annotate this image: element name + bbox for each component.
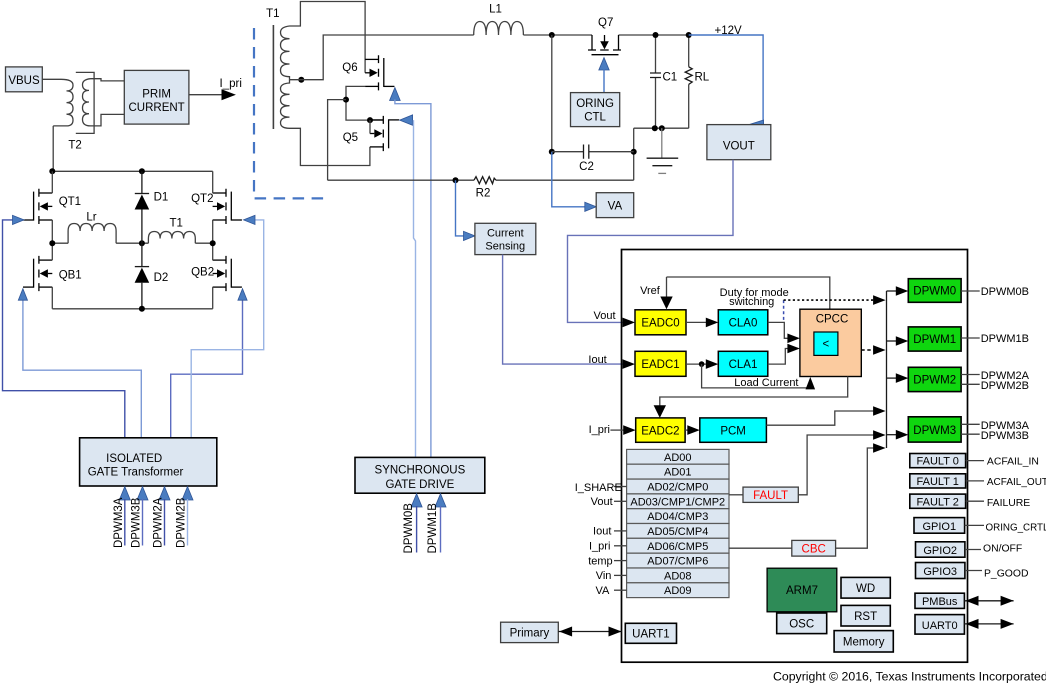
- svg-text:PCM: PCM: [720, 426, 746, 438]
- svg-text:DPWM0B: DPWM0B: [981, 286, 1029, 298]
- svg-text:UART0: UART0: [922, 620, 958, 632]
- arrowhead Q5 gate: [400, 115, 413, 125]
- bridge mid rail: [52, 242, 212, 244]
- svg-text:Q7: Q7: [598, 17, 613, 29]
- DPWM3 block: [908, 417, 961, 442]
- svg-text:QB2: QB2: [191, 267, 214, 279]
- RST block: [841, 605, 890, 626]
- svg-text:Iout: Iout: [593, 526, 611, 538]
- svg-text:ACFAIL_IN: ACFAIL_IN: [987, 457, 1039, 468]
- svg-text:DPWM3B: DPWM3B: [981, 430, 1029, 442]
- svg-text:OSC: OSC: [789, 619, 814, 631]
- wire bus to DPWM3: [887, 434, 898, 436]
- gate wire QB1 from DPWM3B: [23, 299, 141, 439]
- full-bridge top rail: [52, 170, 212, 172]
- svg-text:CPCC: CPCC: [816, 314, 849, 326]
- wire bus to DPWM2: [887, 377, 898, 379]
- node C2 right: [631, 149, 637, 155]
- node D1 cathode junction: [139, 168, 145, 174]
- transformer T1 secondary winding upper: [281, 26, 290, 80]
- CPCC block: [800, 309, 861, 376]
- wire T2 secondary bottom to PRIM CURRENT: [91, 114, 125, 126]
- svg-text:CBC: CBC: [802, 544, 826, 556]
- DPWM output labels: [981, 286, 1030, 442]
- EADC1 block: [635, 351, 686, 376]
- UART0 block: [915, 615, 1014, 635]
- ADC channel list AD00-AD09: [627, 449, 729, 597]
- svg-text:Q5: Q5: [343, 132, 358, 144]
- svg-text:AD09: AD09: [664, 585, 692, 597]
- svg-text:I_pri: I_pri: [589, 424, 610, 436]
- FAULT block: [743, 487, 798, 502]
- transistor Q6: [365, 55, 394, 90]
- svg-text:D1: D1: [154, 192, 169, 204]
- svg-text:RL: RL: [695, 72, 710, 84]
- wire QB2 drain: [212, 243, 214, 260]
- node EADC1 output junction: [699, 361, 705, 367]
- svg-text:ON/OFF: ON/OFF: [983, 543, 1022, 554]
- Current Sensing block: [475, 223, 536, 254]
- wire QB1 source: [51, 287, 53, 309]
- R2 rail: [328, 179, 634, 181]
- svg-text:FAULT 1: FAULT 1: [917, 476, 959, 488]
- svg-text:EADC1: EADC1: [641, 359, 679, 371]
- node C1 bottom: [652, 125, 658, 131]
- DPWM bus vertical: [886, 291, 888, 448]
- svg-text:I_pri: I_pri: [589, 541, 610, 553]
- dotted duty-for-mode wire to DPWM bus: [784, 299, 875, 301]
- DPWM1 block: [908, 327, 961, 351]
- svg-text:I_pri: I_pri: [220, 78, 242, 90]
- svg-text:<: <: [823, 339, 830, 351]
- svg-text:PMBus: PMBus: [922, 596, 958, 608]
- svg-text:QT1: QT1: [59, 196, 81, 208]
- resistor RL: [685, 35, 710, 128]
- svg-text:GPIO2: GPIO2: [923, 545, 957, 557]
- svg-text:VBUS: VBUS: [8, 75, 40, 87]
- transformer T2 primary winding: [53, 79, 73, 126]
- wire EADC2 to PCM: [685, 429, 688, 431]
- inductor L1: [474, 22, 524, 36]
- svg-text:Vref: Vref: [640, 285, 661, 297]
- capacitor C2: [552, 145, 634, 174]
- svg-text:GATE Transformer: GATE Transformer: [88, 467, 184, 479]
- node ground stem: [659, 125, 665, 131]
- svg-text:AD07/CMP6: AD07/CMP6: [647, 556, 708, 568]
- svg-text:Q6: Q6: [342, 62, 357, 74]
- svg-text:switching: switching: [729, 296, 774, 308]
- svg-text:temp: temp: [588, 555, 612, 567]
- arrowhead into Current Sensing: [464, 231, 475, 240]
- GPIO3 block: [916, 563, 1029, 580]
- gate wire Q6 from SYNC drive: [395, 100, 431, 458]
- CLA1 block: [718, 351, 768, 376]
- svg-text:VA: VA: [596, 585, 611, 597]
- DPWM3A input arrow: [113, 487, 130, 549]
- transistor Q7: [588, 35, 621, 55]
- svg-text:Copyright © 2016, Texas Instru: Copyright © 2016, Texas Instruments Inco…: [773, 670, 1046, 683]
- FAULT 0 block: [910, 454, 1039, 468]
- transformer T2 secondary winding: [83, 79, 91, 126]
- inductor Lr: [68, 224, 116, 244]
- wire CLA1 to CPCC: [768, 349, 789, 365]
- main output rail: [523, 34, 688, 36]
- wire Primary to UART1: [558, 631, 621, 633]
- svg-text:I_SHARE: I_SHARE: [575, 482, 622, 494]
- svg-text:Primary: Primary: [510, 628, 550, 640]
- arrowhead I_pri: [222, 89, 236, 100]
- SYNCHRONOUS GATE DRIVE block: [355, 457, 485, 493]
- svg-text:Sensing: Sensing: [485, 241, 525, 253]
- svg-text:+12V: +12V: [715, 25, 743, 37]
- svg-text:ORING: ORING: [576, 98, 614, 110]
- arrowhead into VA: [585, 202, 596, 211]
- wire C2 left vertical: [551, 35, 553, 152]
- svg-text:EADC0: EADC0: [641, 318, 679, 330]
- wire Q5 body to drain: [369, 120, 371, 133]
- svg-text:DPWM2B: DPWM2B: [981, 380, 1029, 392]
- svg-text:AD01: AD01: [664, 467, 692, 479]
- DPWM1B input arrow: [427, 494, 446, 554]
- node C1 top: [653, 32, 659, 38]
- arrowhead QB2 gate: [238, 289, 247, 301]
- wire QT1 drain: [51, 171, 53, 193]
- svg-text:AD06/CMP5: AD06/CMP5: [647, 541, 708, 553]
- wire Q6 source node to R2 rail: [328, 100, 346, 181]
- node T1 center tap: [298, 77, 304, 83]
- svg-text:QB1: QB1: [59, 270, 82, 282]
- svg-text:Memory: Memory: [843, 637, 885, 649]
- node C2 left: [549, 149, 555, 155]
- diode D1: [135, 171, 150, 243]
- node mid-center: [139, 240, 145, 246]
- WD block: [841, 577, 890, 598]
- wire EADC1 to CLA1: [686, 363, 707, 365]
- Vref feedback wire: [667, 277, 830, 309]
- wire VBUS to T2 primary: [42, 78, 61, 80]
- svg-text:GPIO1: GPIO1: [922, 521, 956, 533]
- load current wire EADC1 to CPCC: [702, 364, 811, 388]
- wire CLA0 to CPCC: [768, 322, 789, 338]
- Memory block: [834, 631, 893, 652]
- wire Vout sense to EADC0: [568, 160, 734, 323]
- Primary block: [501, 622, 559, 642]
- wire FAULT to DPWM bus: [798, 435, 874, 495]
- GPIO1 block: [914, 518, 1046, 534]
- svg-text:R2: R2: [476, 188, 491, 200]
- EADC0 block: [635, 310, 686, 335]
- wire T1 bottom to Q5 source: [290, 128, 370, 165]
- svg-text:RST: RST: [854, 611, 877, 623]
- svg-text:VOUT: VOUT: [723, 141, 755, 153]
- ADC input ticks and labels: [614, 487, 627, 591]
- wire bus to DPWM0: [887, 290, 898, 292]
- svg-text:PRIM: PRIM: [142, 89, 171, 101]
- PCM block: [700, 418, 767, 442]
- wire ORING CTL to Q7 gate: [603, 69, 605, 93]
- svg-text:UART1: UART1: [632, 629, 670, 641]
- wire QT2 source: [212, 220, 214, 243]
- wire QB2 source: [212, 287, 214, 309]
- svg-text:P_GOOD: P_GOOD: [984, 568, 1028, 579]
- dashed duty tap wire: [783, 300, 785, 322]
- VBUS block: [6, 67, 43, 92]
- svg-text:ARM7: ARM7: [786, 585, 818, 597]
- bridge bottom rail: [52, 308, 212, 310]
- arrowhead QT1 gate: [13, 215, 25, 224]
- svg-text:CTL: CTL: [584, 112, 606, 124]
- EADC2 block: [636, 418, 685, 442]
- ISOLATED GATE Transformer block: [80, 438, 217, 486]
- node top-left junction: [49, 168, 55, 174]
- svg-text:Current: Current: [487, 228, 524, 240]
- svg-text:FAULT: FAULT: [753, 490, 788, 502]
- node mid-left: [49, 240, 55, 246]
- CLA0 block: [718, 310, 768, 335]
- wire Iout sense to EADC1: [503, 255, 624, 365]
- svg-text:T2: T2: [68, 140, 81, 152]
- svg-text:FAULT 0: FAULT 0: [917, 456, 959, 468]
- svg-text:DPWM2B: DPWM2B: [176, 497, 188, 548]
- wire CPCC bottom to EADC2: [660, 377, 848, 407]
- svg-text:Lr: Lr: [86, 212, 96, 224]
- DPWM2B input arrow: [176, 487, 193, 549]
- transformer T1 secondary core: [272, 25, 274, 129]
- DPWM0 block: [908, 279, 961, 303]
- controller UCD3138 outer box: [622, 250, 968, 663]
- DPWM3B input arrow: [131, 487, 148, 549]
- CBC block: [792, 540, 836, 556]
- VA block: [596, 193, 634, 218]
- capacitor C1: [650, 35, 677, 128]
- svg-text:DPWM2: DPWM2: [913, 375, 956, 387]
- ARM7 block: [767, 568, 837, 612]
- node Q6 source branch: [343, 97, 349, 103]
- svg-text:DPWM3A: DPWM3A: [113, 497, 125, 548]
- svg-text:GPIO3: GPIO3: [923, 566, 957, 578]
- svg-text:AD04/CMP3: AD04/CMP3: [647, 511, 708, 523]
- svg-text:DPWM3: DPWM3: [913, 425, 956, 437]
- Vref arrow into EADC0: [666, 277, 668, 297]
- svg-text:Vin: Vin: [596, 570, 612, 582]
- node C2 left top: [549, 32, 555, 38]
- wire QB1 drain: [51, 243, 53, 260]
- transistor QB1: [23, 256, 52, 291]
- wire T2 secondary top to PRIM CURRENT: [91, 79, 125, 81]
- svg-text:ORING_CRTL: ORING_CRTL: [986, 522, 1046, 533]
- wire T1 center tap to main rail: [290, 35, 474, 80]
- svg-text:CURRENT: CURRENT: [128, 102, 184, 114]
- dashed CPCC output wire to DPWM bus: [861, 349, 874, 351]
- svg-text:FAILURE: FAILURE: [987, 498, 1030, 509]
- wire I_pri output: [189, 94, 223, 96]
- arrowhead Q6 gate: [390, 88, 401, 101]
- arrowhead Vout into EADC0: [623, 318, 636, 328]
- svg-text:T1: T1: [266, 8, 279, 20]
- arrowhead QT2 gate: [244, 215, 256, 224]
- svg-text:ISOLATED: ISOLATED: [106, 453, 162, 465]
- DPWM0B input arrow: [403, 494, 422, 554]
- wire QT1 source: [51, 220, 53, 243]
- isolation boundary dashed line: [254, 28, 329, 198]
- wire T1 top loop to Q6 drain: [290, 2, 366, 73]
- wire Q6 source to Q5 drain: [346, 86, 383, 120]
- DPWM2 block: [908, 367, 961, 391]
- svg-text:C2: C2: [579, 161, 594, 173]
- resistor R2: [474, 177, 496, 184]
- svg-text:Vout: Vout: [591, 496, 613, 508]
- ground: [647, 128, 679, 173]
- svg-text:ACFAIL_OUT: ACFAIL_OUT: [987, 477, 1046, 488]
- +12V wire: [689, 35, 763, 126]
- inductor T1 primary: [148, 232, 195, 244]
- wire PCM to DPWM bus: [766, 411, 874, 425]
- ORING CTL block: [571, 93, 620, 127]
- arrowhead Iout into EADC1: [623, 359, 636, 369]
- transistor QT1: [23, 189, 52, 224]
- gate wire QT2 from DPWM2B: [191, 220, 264, 439]
- svg-text:Vout: Vout: [594, 310, 616, 322]
- wire CBC to DPWM bus: [836, 448, 875, 548]
- PMBus block: [915, 593, 1014, 608]
- svg-text:DPWM3B: DPWM3B: [131, 497, 143, 548]
- PRIM CURRENT block: [124, 70, 189, 124]
- wire QT2 drain: [212, 171, 214, 193]
- svg-text:L1: L1: [489, 4, 502, 16]
- svg-text:DPWM1B: DPWM1B: [427, 503, 439, 554]
- svg-text:C1: C1: [663, 72, 678, 84]
- svg-text:Iout: Iout: [588, 354, 606, 366]
- svg-text:GATE DRIVE: GATE DRIVE: [385, 479, 454, 491]
- wire C2 right vertical: [633, 128, 635, 180]
- svg-text:VA: VA: [608, 201, 623, 213]
- VOUT block: [707, 125, 771, 160]
- wire R2 node to Current Sensing: [456, 180, 465, 236]
- svg-text:WD: WD: [856, 583, 875, 595]
- node Q5 drain-body junction: [367, 117, 373, 123]
- wire AD02 to FAULT: [729, 494, 743, 496]
- svg-text:AD03/CMP1/CMP2: AD03/CMP1/CMP2: [630, 496, 725, 508]
- svg-text:Load Current: Load Current: [734, 377, 798, 389]
- svg-text:D2: D2: [154, 272, 169, 284]
- svg-text:CLA0: CLA0: [729, 318, 758, 330]
- svg-text:AD02/CMP0: AD02/CMP0: [647, 482, 708, 494]
- gate wire QB2 from DPWM2A: [171, 299, 243, 439]
- DPWM output ticks: [961, 291, 980, 434]
- svg-text:DPWM0: DPWM0: [913, 286, 956, 298]
- svg-text:AD08: AD08: [664, 570, 692, 582]
- svg-text:AD05/CMP4: AD05/CMP4: [647, 526, 708, 538]
- output lower rail: [634, 127, 689, 129]
- DPWM2A input arrow: [153, 487, 170, 549]
- wire AD06 to CBC: [729, 547, 792, 549]
- svg-text:SYNCHRONOUS: SYNCHRONOUS: [375, 465, 466, 477]
- svg-text:DPWM1: DPWM1: [913, 334, 956, 346]
- node D2 anode junction: [139, 306, 145, 312]
- arrowhead +12V into VOUT: [747, 120, 764, 131]
- arrowhead QB1 gate: [18, 289, 27, 301]
- UART1 block: [625, 623, 676, 643]
- wire VA branch: [552, 152, 586, 207]
- node R2 sense junction: [453, 177, 459, 183]
- wire I_pri into EADC2: [610, 429, 624, 431]
- GPIO2 block: [916, 542, 1023, 557]
- arrowhead Q7 gate: [599, 58, 609, 71]
- svg-text:EADC2: EADC2: [641, 426, 679, 438]
- svg-text:T1: T1: [170, 218, 183, 230]
- gate wire QT1 from DPWM3A: [3, 220, 125, 439]
- node RL top: [686, 32, 692, 38]
- wire bus to DPWM1: [887, 340, 898, 342]
- node mid-right: [210, 240, 216, 246]
- FAULT 2 block: [910, 494, 1030, 509]
- svg-text:CLA1: CLA1: [729, 359, 758, 371]
- svg-text:FAULT 2: FAULT 2: [917, 496, 959, 508]
- wire T2 primary down to bridge rail: [52, 126, 54, 171]
- svg-text:QT2: QT2: [191, 193, 213, 205]
- OSC block: [777, 613, 827, 634]
- svg-text:DPWM0B: DPWM0B: [403, 503, 415, 554]
- wire EADC0 to CLA0: [686, 321, 707, 323]
- transformer T1 secondary winding lower: [281, 80, 290, 129]
- diode D2: [135, 243, 150, 309]
- svg-text:DPWM2A: DPWM2A: [153, 497, 165, 548]
- FAULT 1 block: [910, 474, 1046, 488]
- svg-text:DPWM1B: DPWM1B: [981, 333, 1029, 345]
- svg-text:AD00: AD00: [664, 452, 692, 464]
- transistor QT2: [213, 189, 242, 224]
- gate wire Q5 from SYNC drive: [414, 120, 416, 457]
- transformer T2 core: [76, 72, 94, 133]
- transistor Q5: [370, 116, 399, 151]
- transistor QB2: [213, 256, 242, 291]
